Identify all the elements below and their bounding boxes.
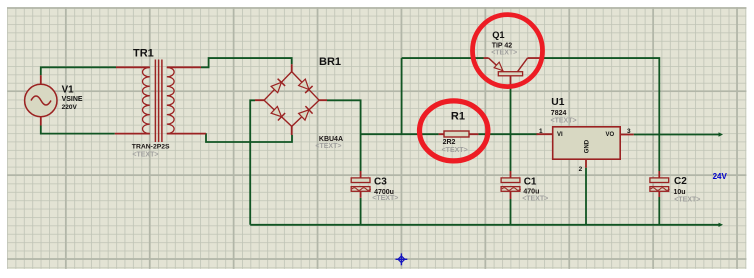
annotation circle around R1 — [420, 101, 488, 161]
svg-text:<TEXT>: <TEXT> — [132, 151, 158, 158]
TR1 core — [155, 60, 162, 143]
transformer TR1 — [115, 60, 206, 143]
resistor R1 — [439, 131, 479, 137]
svg-text:TRAN-2P2S: TRAN-2P2S — [132, 143, 170, 150]
svg-text:VI: VI — [557, 132, 563, 138]
svg-text:BR1: BR1 — [319, 56, 341, 68]
BR1 diode bottom-right — [299, 106, 313, 120]
wire V1 top to TR1 primary top — [41, 67, 116, 75]
wire Q1 rail left segment — [402, 57, 484, 59]
wire U1 GND to bottom rail — [585, 168, 587, 225]
svg-text:470u: 470u — [523, 189, 539, 196]
BR1 diode top-left — [271, 79, 285, 93]
Q1 emitter diagonal — [489, 58, 504, 72]
svg-text:3: 3 — [627, 128, 631, 135]
BR1 diode top-right — [299, 79, 313, 93]
wire VO output arrow — [719, 132, 724, 136]
svg-text:<TEXT>: <TEXT> — [522, 196, 548, 203]
sheet origin marker — [396, 253, 408, 265]
Q1 collector diagonal — [518, 58, 528, 72]
wire Q1 rail right segment down to C2 — [540, 58, 660, 171]
svg-text:VO: VO — [606, 132, 615, 138]
bridge rectifier BR1 — [255, 64, 327, 135]
Q1 collector pin right — [528, 57, 540, 59]
wire R1 line y=134 — [361, 133, 439, 135]
wire bottom rail end arrow — [719, 223, 724, 227]
Q1 base pin — [510, 76, 512, 84]
svg-text:U1: U1 — [551, 97, 564, 108]
wire BR1 right corner to C3 top and R1 line — [327, 100, 361, 171]
svg-text:<TEXT>: <TEXT> — [442, 147, 468, 154]
svg-text:KBU4A: KBU4A — [319, 136, 343, 143]
svg-text:C3: C3 — [374, 177, 387, 188]
annotation circle around Q1 — [473, 15, 543, 87]
svg-text:R1: R1 — [451, 111, 465, 123]
U1 pin 3 stub — [620, 134, 634, 136]
regulator U1 — [537, 127, 634, 168]
svg-text:<TEXT>: <TEXT> — [315, 143, 341, 150]
capacitor C1 — [501, 171, 521, 199]
BR1 diode bottom-left — [271, 107, 285, 121]
wire R1 line to C1 — [510, 134, 512, 171]
TR1 secondary winding — [167, 67, 174, 133]
wire V1 bottom to TR1 primary bottom — [41, 126, 115, 134]
capacitor C3 — [351, 171, 371, 198]
svg-text:10u: 10u — [674, 189, 686, 196]
U1 body — [553, 127, 621, 159]
transistor Q1 — [484, 58, 540, 84]
svg-text:2: 2 — [579, 166, 583, 173]
svg-text:C2: C2 — [674, 176, 687, 187]
wire TR1 secondary top to BR1 top corner — [201, 58, 292, 67]
svg-text:C1: C1 — [524, 177, 537, 188]
capacitor C2 — [650, 171, 670, 197]
BR1 pin stubs — [255, 64, 327, 135]
svg-text:<TEXT>: <TEXT> — [674, 196, 700, 203]
wire TR1 secondary bottom jog — [206, 133, 292, 142]
svg-text:TR1: TR1 — [133, 48, 154, 60]
svg-text:TIP 42: TIP 42 — [492, 42, 513, 49]
Q1 emitter pin left — [484, 57, 489, 59]
svg-text:Q1: Q1 — [492, 30, 504, 40]
TR1 secondary pin stubs — [167, 67, 206, 133]
svg-text:1: 1 — [539, 128, 543, 135]
Q1 emitter arrow — [494, 62, 503, 71]
svg-text:GND: GND — [584, 139, 590, 153]
svg-text:<TEXT>: <TEXT> — [491, 50, 517, 57]
wire C1 bottom to rail — [510, 199, 512, 225]
svg-text:VSINE: VSINE — [62, 96, 83, 103]
BR1 diamond edges — [264, 72, 319, 127]
wire bottom rail — [250, 224, 719, 226]
source V1 — [25, 75, 57, 125]
wire Q1 rail vertical left — [401, 58, 403, 134]
wire U1 VO output — [634, 134, 720, 136]
U1 pin 2 stub — [585, 159, 587, 168]
TR1 primary pin stubs — [115, 67, 150, 133]
svg-text:V1: V1 — [62, 85, 75, 96]
wire C3 bottom to rail — [360, 198, 362, 225]
U1 pin 1 stub — [537, 133, 553, 135]
svg-text:2R2: 2R2 — [443, 139, 456, 146]
svg-text:7824: 7824 — [551, 110, 567, 117]
svg-text:220V: 220V — [62, 104, 78, 111]
svg-text:<TEXT>: <TEXT> — [551, 117, 577, 124]
wire C2 bottom to rail — [658, 197, 660, 225]
wire R1 right to U1 VI — [478, 133, 537, 135]
wire Q1 base down to R1 line — [510, 84, 512, 134]
svg-text:24V: 24V — [713, 172, 728, 181]
Q1 base bar — [498, 72, 522, 76]
svg-text:<TEXT>: <TEXT> — [372, 195, 398, 202]
TR1 primary winding — [142, 67, 149, 133]
wire BR1 left corner down to bottom rail — [250, 100, 255, 225]
